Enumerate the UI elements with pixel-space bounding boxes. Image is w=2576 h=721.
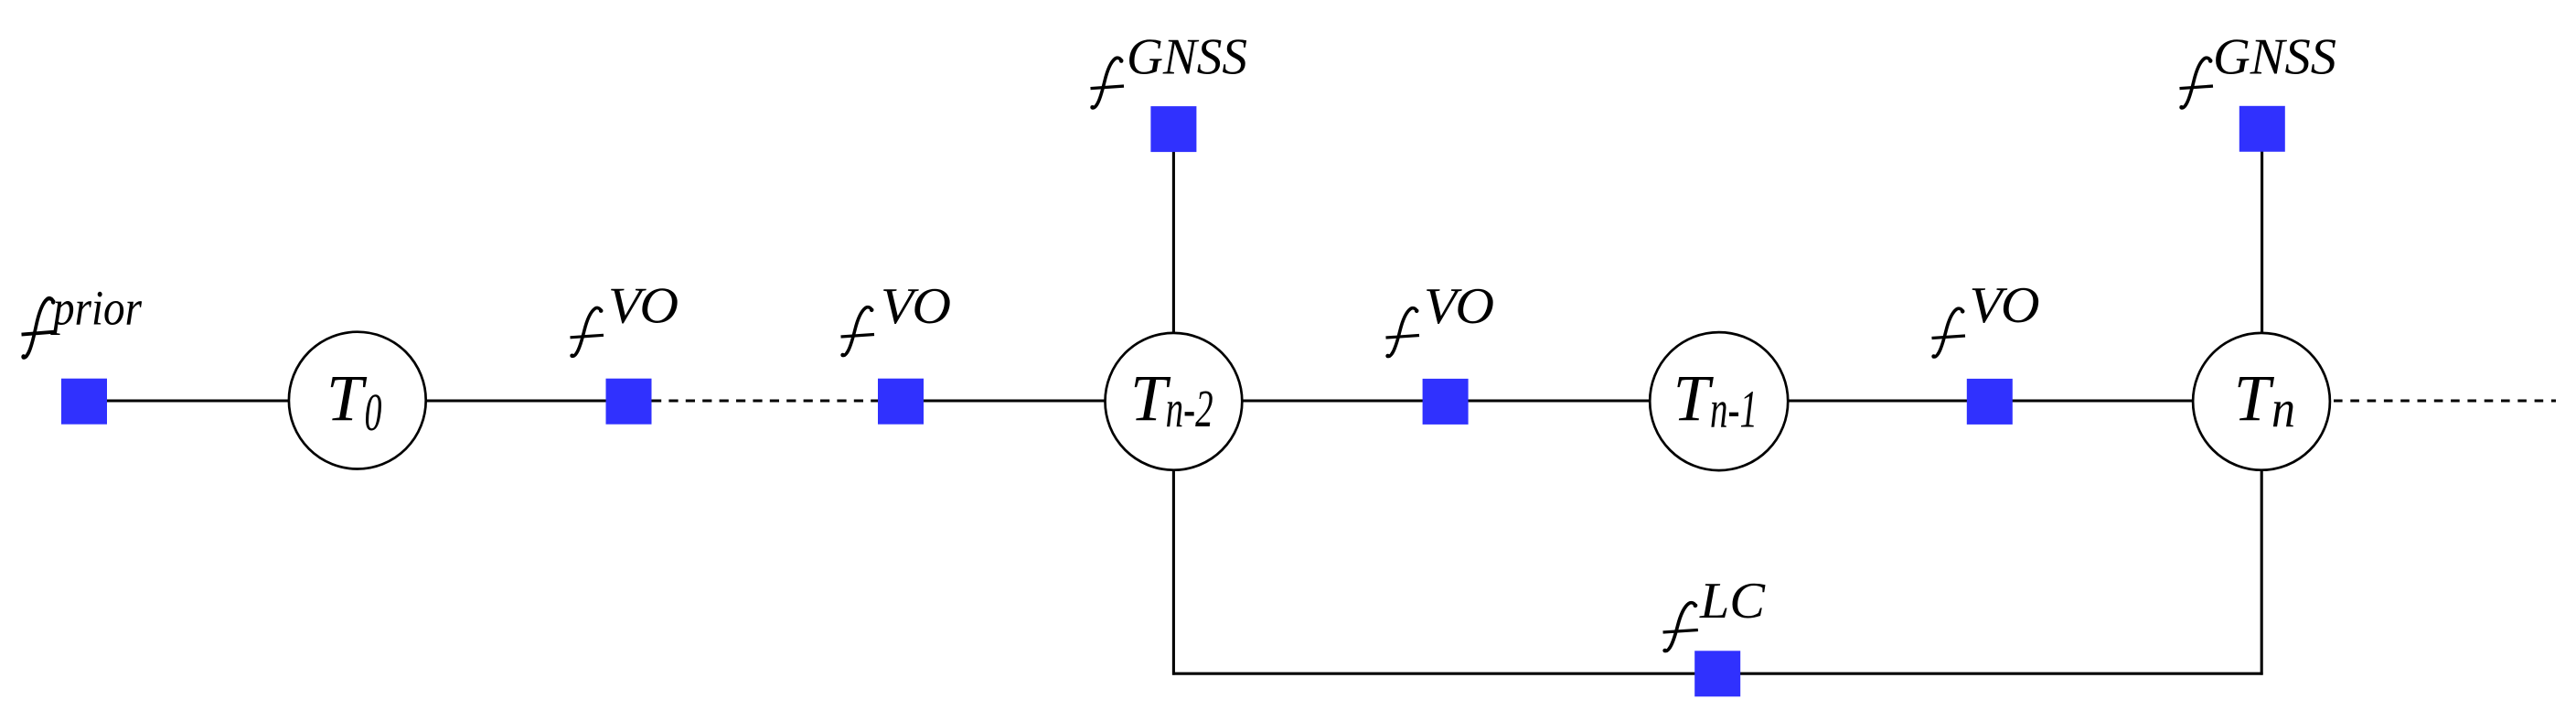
svg-text:T: T [326,361,368,435]
svg-text:VO: VO [1970,277,2040,334]
svg-text:VO: VO [881,278,951,335]
svg-text:VO: VO [1424,278,1494,335]
svg-text:n-1: n-1 [1710,380,1758,439]
svg-text:T: T [1673,361,1715,435]
svg-text:GNSS: GNSS [2213,29,2336,86]
svg-text:LC: LC [1699,573,1766,630]
svg-text:0: 0 [365,382,382,442]
svg-text:T: T [2234,361,2275,435]
svg-text:n-2: n-2 [1166,379,1213,438]
svg-text:VO: VO [608,278,679,335]
svg-text:prior: prior [50,280,143,335]
svg-text:n: n [2271,379,2295,438]
svg-text:GNSS: GNSS [1127,29,1247,86]
